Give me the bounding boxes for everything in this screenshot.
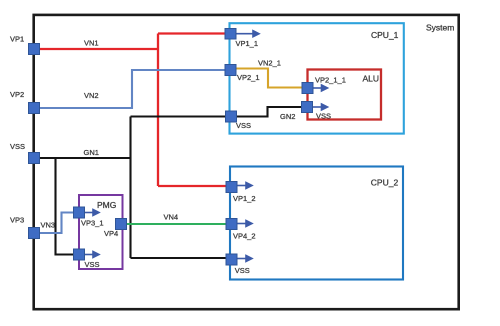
svg-text:VP4_2: VP4_2 (233, 232, 256, 241)
svg-text:VSS: VSS (236, 121, 251, 130)
svg-text:VP1_2: VP1_2 (233, 194, 256, 203)
svg-text:VP3: VP3 (10, 216, 24, 225)
svg-text:CPU_2: CPU_2 (371, 178, 399, 188)
svg-text:VP4: VP4 (104, 229, 118, 238)
svg-text:VP2_1: VP2_1 (237, 73, 260, 82)
svg-text:VP2: VP2 (10, 90, 24, 99)
svg-text:VN1: VN1 (84, 39, 99, 48)
svg-text:VP1: VP1 (10, 35, 24, 44)
svg-text:VP2_1_1: VP2_1_1 (315, 76, 346, 85)
svg-text:VSS: VSS (85, 260, 100, 269)
svg-text:VSS: VSS (235, 266, 250, 275)
svg-text:VN3: VN3 (41, 221, 56, 230)
svg-text:VP1_1: VP1_1 (236, 39, 259, 48)
svg-text:VN2_1: VN2_1 (258, 59, 281, 68)
svg-text:CPU_1: CPU_1 (371, 30, 399, 40)
svg-text:VP3_1: VP3_1 (81, 219, 104, 228)
svg-text:VSS: VSS (316, 112, 331, 121)
svg-text:System: System (426, 23, 454, 33)
svg-text:VN4: VN4 (164, 213, 179, 222)
svg-text:ALU: ALU (363, 74, 380, 84)
svg-text:GN2: GN2 (280, 112, 295, 121)
svg-text:VN2: VN2 (84, 91, 99, 100)
svg-text:PMG: PMG (97, 200, 116, 210)
svg-text:GN1: GN1 (84, 148, 99, 157)
svg-text:VSS: VSS (10, 142, 25, 151)
